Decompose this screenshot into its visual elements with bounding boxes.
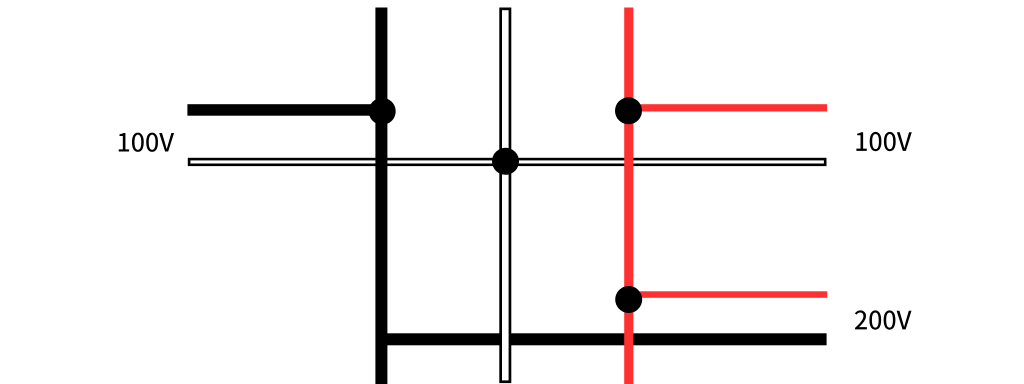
junction node: L2 bus / top branch — [615, 97, 642, 124]
junction node: L2 bus / bottom branch — [615, 286, 642, 313]
wire: L2 vertical bus (red) — [624, 8, 633, 384]
value label: 100V (left) — [119, 133, 174, 152]
wire: L1 vertical bus (black) — [375, 8, 387, 384]
junction node: neutral bus / neutral feeder — [492, 148, 519, 175]
wire: neutral horizontal feeder (white outlined) — [189, 159, 825, 165]
wire: neutral vertical bus (white outlined) — [501, 9, 510, 382]
value label: 200V (right) — [855, 310, 912, 329]
wire: L1 branch top-left (black horizontal) — [187, 104, 387, 116]
wire: L2 branch bottom (red horizontal) — [629, 291, 828, 298]
value label: 100V (right) — [856, 132, 911, 151]
wire: L2 branch top (red horizontal) — [629, 104, 828, 111]
junction node: L1 bus / top branch — [369, 98, 396, 125]
wire: L1 branch bottom (black horizontal) — [382, 333, 827, 345]
